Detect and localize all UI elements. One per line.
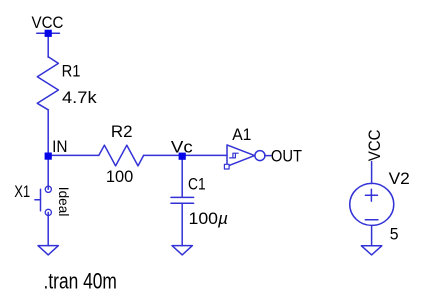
voltage source V2 circle xyxy=(350,183,394,225)
junction square at VCC flag xyxy=(45,30,52,37)
svg-text:VCC: VCC xyxy=(32,13,64,32)
wire Vc to C1 xyxy=(181,155,183,197)
wire VCC flag to R1 xyxy=(47,33,49,57)
wire X1 to ground xyxy=(47,212,49,245)
svg-text:Ideal: Ideal xyxy=(56,187,71,217)
wire IN to R2 xyxy=(48,154,99,156)
wire VCC flag to V2 xyxy=(371,162,373,184)
wire C1 to ground xyxy=(181,203,183,245)
V2 plus sign xyxy=(365,189,377,201)
A1 unconnected pin square xyxy=(224,164,229,169)
wire R1 to IN node xyxy=(47,110,49,156)
svg-text:100: 100 xyxy=(106,167,133,186)
svg-text:5: 5 xyxy=(390,225,399,244)
svg-text:R1: R1 xyxy=(62,61,81,80)
svg-text:C1: C1 xyxy=(188,174,206,193)
svg-text:R2: R2 xyxy=(111,122,133,141)
switch X1 actuator bar xyxy=(40,189,42,211)
resistor R2 xyxy=(99,145,144,166)
capacitor C1 top plate xyxy=(171,196,194,198)
schmitt buffer A1 triangle xyxy=(227,145,255,166)
ground (below V2) xyxy=(361,246,381,255)
svg-text:A1: A1 xyxy=(232,125,251,144)
capacitor C1 bottom plate xyxy=(171,202,194,204)
ground (below C1) xyxy=(172,246,192,255)
A1 output bubble xyxy=(255,151,265,161)
resistor R1 xyxy=(37,57,58,110)
wire R2 to Vc node xyxy=(144,154,183,156)
net flag VCC bar (top left) xyxy=(37,32,60,34)
svg-text:VCC: VCC xyxy=(365,130,384,162)
switch X1 bottom terminal xyxy=(45,209,51,215)
junction square at node Vc xyxy=(179,153,186,160)
svg-text:.tran 40m: .tran 40m xyxy=(44,268,117,293)
A1 hysteresis glyph xyxy=(230,153,239,158)
wire A1 bubble to OUT xyxy=(265,155,271,157)
V2 minus sign xyxy=(365,219,378,221)
svg-text:V2: V2 xyxy=(389,169,410,188)
switch X1 actuator tick xyxy=(35,199,41,201)
junction square at node IN xyxy=(45,153,52,160)
svg-text:µ: µ xyxy=(217,209,228,228)
svg-text:OUT: OUT xyxy=(271,147,302,166)
svg-text:X1: X1 xyxy=(14,182,30,201)
wire V2 to ground xyxy=(371,226,373,246)
svg-text:Vc: Vc xyxy=(171,138,193,157)
switch X1 top terminal xyxy=(45,186,51,192)
wire IN to switch X1 xyxy=(47,155,49,189)
svg-text:IN: IN xyxy=(52,137,67,156)
wire Vc to A1 input xyxy=(182,154,227,156)
svg-text:100: 100 xyxy=(189,209,219,228)
ground (below X1) xyxy=(38,246,58,255)
svg-text:4.7k: 4.7k xyxy=(62,88,97,107)
